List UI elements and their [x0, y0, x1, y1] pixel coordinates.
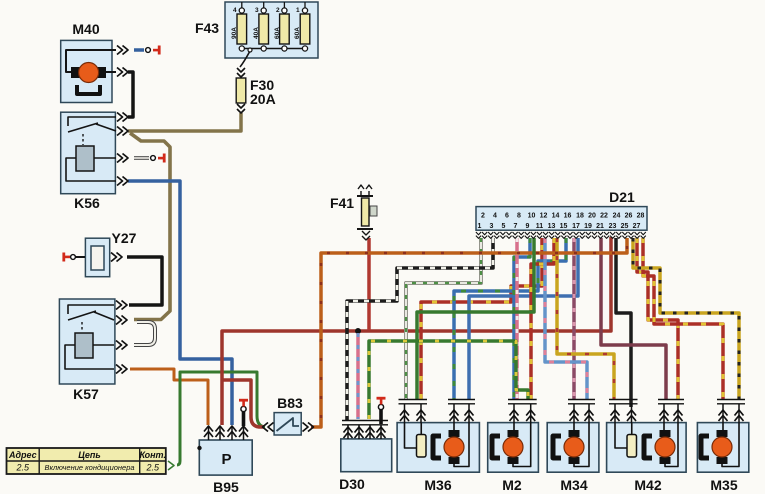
fuse F43.3 40A [253, 2, 269, 51]
svg-text:13: 13 [548, 223, 556, 230]
wire black-white dashed D21 pin3 to D30 pin1 [347, 238, 493, 420]
pin M34-1 [573, 404, 575, 423]
pin B95-2 [219, 426, 221, 440]
svg-text:26: 26 [625, 213, 633, 220]
pin M42-3 [663, 404, 665, 423]
wire green from table arrow to B83 left [177, 372, 265, 465]
wire red-yellow M36 pin2 up to D21 pin 12 [421, 238, 542, 399]
relay K57 box [59, 299, 115, 402]
D21 pin numbers odd row [478, 223, 641, 230]
svg-text:8: 8 [517, 213, 521, 220]
wire blue-pink D21 pin 11 to M34 pin2 [545, 238, 587, 399]
B83 switch blade [277, 418, 300, 431]
pin D30-1 [347, 425, 349, 439]
wire yellow-black D21 pin 27 to M35 pin2 [633, 238, 739, 399]
svg-text:B83: B83 [277, 395, 303, 411]
svg-text:Конт.: Конт. [139, 450, 166, 460]
svg-text:Адрес: Адрес [8, 450, 37, 460]
pin M2-2 [530, 404, 532, 423]
wire orange K57 pin4 to B95 pin1 [130, 369, 208, 425]
svg-text:12: 12 [540, 213, 548, 220]
svg-text:4: 4 [233, 7, 237, 14]
wire black D21 pin 21 to M42 pin2 [616, 238, 631, 407]
svg-text:4: 4 [493, 213, 497, 220]
pin M2-1 [513, 404, 515, 423]
D30 connector bars [342, 421, 388, 425]
svg-text:90A: 90A [231, 27, 238, 39]
address table [7, 448, 166, 474]
wire red-yellow D21 pin 28 to M35 pin1 [643, 238, 723, 399]
fusebox F43 [195, 2, 318, 58]
svg-text:7: 7 [514, 223, 518, 230]
svg-text:18: 18 [576, 213, 584, 220]
svg-text:27: 27 [633, 223, 641, 230]
svg-text:2: 2 [481, 213, 485, 220]
node junction dot red-pink [355, 328, 361, 334]
svg-text:20: 20 [588, 213, 596, 220]
fan motor M34 box [547, 423, 599, 493]
svg-text:25: 25 [621, 223, 629, 230]
wire blue-green D21 pin 16 to M36 pin3 [454, 238, 566, 399]
svg-text:16: 16 [564, 213, 572, 220]
M2 internal wiring [513, 423, 531, 467]
svg-text:60A: 60A [294, 27, 301, 39]
pin K57-4 [116, 365, 127, 374]
fan motor M42 box [607, 423, 687, 493]
connector bars M42 [609, 400, 638, 404]
pin M42-4 [677, 404, 679, 423]
wire blue K56 pin4 to B95 pin3 [128, 181, 232, 425]
pin K56-3 stub with connector [117, 154, 128, 163]
motor M40 internal wiring [66, 50, 116, 72]
connector bars M36 [399, 400, 428, 404]
connector bars M35 [717, 400, 745, 404]
svg-text:28: 28 [637, 213, 645, 220]
pin B83 right [303, 423, 314, 432]
pin M36-3 [453, 404, 455, 423]
wire black Y27 to K57 pin1 [127, 257, 162, 305]
wire purple-pink D21 pin 17 to M34 pin1 [572, 238, 576, 399]
wire dark-red main B95 pin2 up to D21 pin 23 [222, 237, 611, 425]
switch B83 box [274, 395, 303, 435]
pin D30-2 [358, 425, 360, 439]
svg-text:22: 22 [600, 213, 608, 220]
wire red fuse F41 down to node [367, 238, 371, 330]
wire khaki branch K56 pin2 down to K57 pin2 [130, 133, 170, 320]
relay K57 coil [75, 333, 93, 358]
svg-text:F43: F43 [195, 20, 219, 36]
svg-text:2.5: 2.5 [16, 463, 31, 473]
F43 switch stub [240, 51, 250, 67]
motor symbol M42 [644, 430, 675, 464]
svg-text:3: 3 [490, 223, 494, 230]
svg-text:60A: 60A [274, 27, 281, 39]
pin B83 left [263, 423, 274, 432]
pin M36-4 [468, 404, 470, 423]
svg-text:B95: B95 [213, 479, 239, 494]
svg-text:M42: M42 [634, 477, 661, 493]
wire white-green D21 pin1 to M36 pin1 [406, 238, 481, 399]
svg-text:F41: F41 [330, 195, 354, 211]
pin K57-1 [116, 301, 127, 310]
D21 bottom pin chevrons [476, 232, 646, 238]
connector D21 box [476, 189, 647, 230]
wire green-yellow D30 pin3 right [369, 341, 528, 419]
wire red-yellow D21 pin 14 to M2 pin2 [531, 238, 554, 399]
fan motor M2 box [488, 423, 539, 493]
svg-text:23: 23 [609, 223, 617, 230]
resistor M42 [627, 435, 637, 458]
connector bars M2 [508, 400, 537, 404]
svg-text:21: 21 [596, 223, 604, 230]
pin B95-1 [208, 426, 210, 440]
svg-text:40A: 40A [253, 27, 260, 39]
svg-text:M36: M36 [424, 477, 451, 493]
pin D30-3 [369, 425, 371, 439]
pin Y27-1 [111, 253, 122, 262]
pin M42-1 [614, 404, 616, 423]
svg-text:2: 2 [276, 7, 280, 14]
pin K57-2 [116, 316, 127, 325]
fan motor M36 box [397, 423, 479, 493]
pin M40-2 [117, 68, 128, 77]
svg-text:D21: D21 [609, 189, 635, 205]
svg-text:20A: 20A [250, 91, 276, 107]
pin M35-2 [738, 404, 740, 423]
svg-text:K57: K57 [73, 386, 99, 402]
F43 bottom bus [242, 48, 305, 50]
svg-text:P: P [221, 451, 231, 468]
fuse F41 [330, 185, 377, 240]
svg-text:15: 15 [560, 223, 568, 230]
svg-text:D30: D30 [339, 476, 365, 492]
svg-text:9: 9 [526, 223, 530, 230]
pin M36-1 [404, 404, 406, 423]
pin M36-2 [420, 404, 422, 423]
pin K57-3 [116, 341, 127, 350]
pin B95-3 [231, 426, 233, 440]
wire khaki K56 pin2 to fuse F30 [128, 113, 241, 131]
pin K56-4 [117, 177, 128, 186]
motor symbol M2 [492, 430, 523, 464]
pin M40-1 stub with connector [117, 46, 128, 55]
motor symbol M36 [433, 430, 464, 464]
pin D30-4 sensor terminal [380, 425, 382, 439]
pin M42-2 [631, 404, 633, 423]
fuse F43.1 60A [294, 2, 310, 51]
M36 internal wiring [454, 423, 469, 467]
motor M40 box [61, 21, 112, 103]
motor symbol M34 [553, 430, 584, 464]
svg-text:1: 1 [296, 7, 300, 14]
connector bars M34 [568, 400, 595, 404]
pin M34-2 [588, 404, 590, 423]
svg-text:14: 14 [552, 213, 560, 220]
wire black M40 pin2 to K56 pin1 [128, 72, 133, 117]
svg-text:11: 11 [536, 223, 544, 230]
svg-text:K56: K56 [74, 195, 100, 211]
M35 internal wiring [722, 423, 739, 467]
wire blue-green D21 pin 10 to M2 pin1 [514, 238, 530, 399]
relay K56 coil [76, 146, 94, 171]
connector bars M36 [448, 400, 475, 404]
wire red-yellow D21 pin 26 to M42 pin4 [637, 238, 678, 399]
fuse F43.2 60A [274, 2, 289, 51]
pin B95-4 sensor terminal [243, 426, 245, 440]
sensor B95 box [199, 440, 252, 494]
svg-text:Y27: Y27 [112, 230, 137, 246]
svg-text:10: 10 [528, 213, 536, 220]
wire yellow D21 pin 13b to M42 pin1 [557, 238, 614, 399]
connector bars M42 [658, 400, 684, 404]
svg-text:M34: M34 [560, 477, 587, 493]
wire pink-white node to D30 pin2 [356, 333, 360, 419]
svg-text:M2: M2 [502, 477, 522, 493]
wire pink-white D21 pin 7 down to M2 [515, 238, 519, 399]
svg-text:3: 3 [255, 7, 259, 14]
relay K57 switch [68, 305, 114, 314]
fuse F30 20A [236, 68, 275, 113]
wire white jumper K57 pin2 pin3 [134, 322, 155, 345]
resistor M36 [417, 435, 427, 458]
svg-text:M35: M35 [710, 477, 737, 493]
svg-text:1: 1 [478, 223, 482, 230]
M42 internal wiring [664, 423, 678, 467]
wire green D21 pin 19 to M36 area [417, 238, 534, 399]
svg-text:17: 17 [572, 223, 580, 230]
relay K56 box [61, 112, 116, 211]
D21 pin numbers even row [481, 213, 644, 220]
relay K56 switch [68, 117, 116, 126]
wire maroon D21 pin 13 to M42 pin3 [601, 238, 666, 399]
svg-text:6: 6 [505, 213, 509, 220]
node green arrow at table [168, 461, 174, 470]
motor symbol M35 [701, 430, 732, 464]
pin K56-1 [117, 113, 128, 122]
wire orange B83 right to D21 pin 25 [311, 238, 627, 427]
svg-text:M40: M40 [72, 21, 99, 37]
fuse F43.4 90A [231, 2, 247, 51]
svg-text:5: 5 [502, 223, 506, 230]
fan motor M35 box [697, 423, 748, 493]
motor M40 symbol [71, 63, 106, 95]
svg-text:2.5: 2.5 [145, 463, 160, 473]
node dot B95 left [197, 446, 201, 450]
M34 internal wiring [574, 423, 589, 467]
wire dark-red branch to B83 left [222, 380, 264, 427]
valve Y27 box [85, 230, 136, 277]
connector D30 box [339, 439, 392, 492]
svg-text:Цепь: Цепь [78, 450, 100, 460]
wire blue D21 pin 18 to M36 pin4 [469, 238, 578, 399]
svg-text:19: 19 [584, 223, 592, 230]
svg-text:Включение кондиционера: Включение кондиционера [44, 463, 134, 472]
Y27 left stub with connector [75, 256, 85, 258]
pin K56-2 [117, 127, 128, 136]
pin M35-1 [722, 404, 724, 423]
svg-text:24: 24 [613, 213, 621, 220]
